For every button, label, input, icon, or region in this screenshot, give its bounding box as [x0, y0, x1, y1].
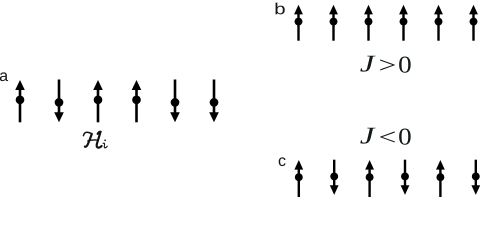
label J greater than 0 [360, 56, 410, 73]
hamiltonian symbol script-H [83, 132, 101, 148]
spin b1 up [294, 5, 303, 41]
spin c1 up [294, 160, 303, 198]
spin a5 down [170, 80, 180, 123]
spin a6 down [209, 80, 219, 123]
spin b2 up [329, 5, 338, 41]
spin c5 up [436, 160, 445, 198]
spin b6 up [469, 5, 478, 41]
label J less than 0 [360, 128, 410, 145]
spin b3 up [364, 5, 373, 41]
spin c6 down [471, 160, 480, 195]
spin a3 up [93, 80, 103, 122]
panel label b [276, 3, 285, 15]
spin b4 up [399, 5, 408, 41]
spin c4 down [401, 160, 410, 195]
spin c3 up [365, 160, 374, 198]
panel label a [0, 72, 8, 81]
spin a4 up [132, 80, 142, 122]
hamiltonian subscript i [103, 139, 107, 147]
spin a1 up [15, 80, 25, 122]
spin c2 down [330, 160, 339, 195]
spin b5 up [434, 5, 443, 41]
spin a2 down [54, 80, 64, 123]
panel label c [279, 157, 286, 166]
